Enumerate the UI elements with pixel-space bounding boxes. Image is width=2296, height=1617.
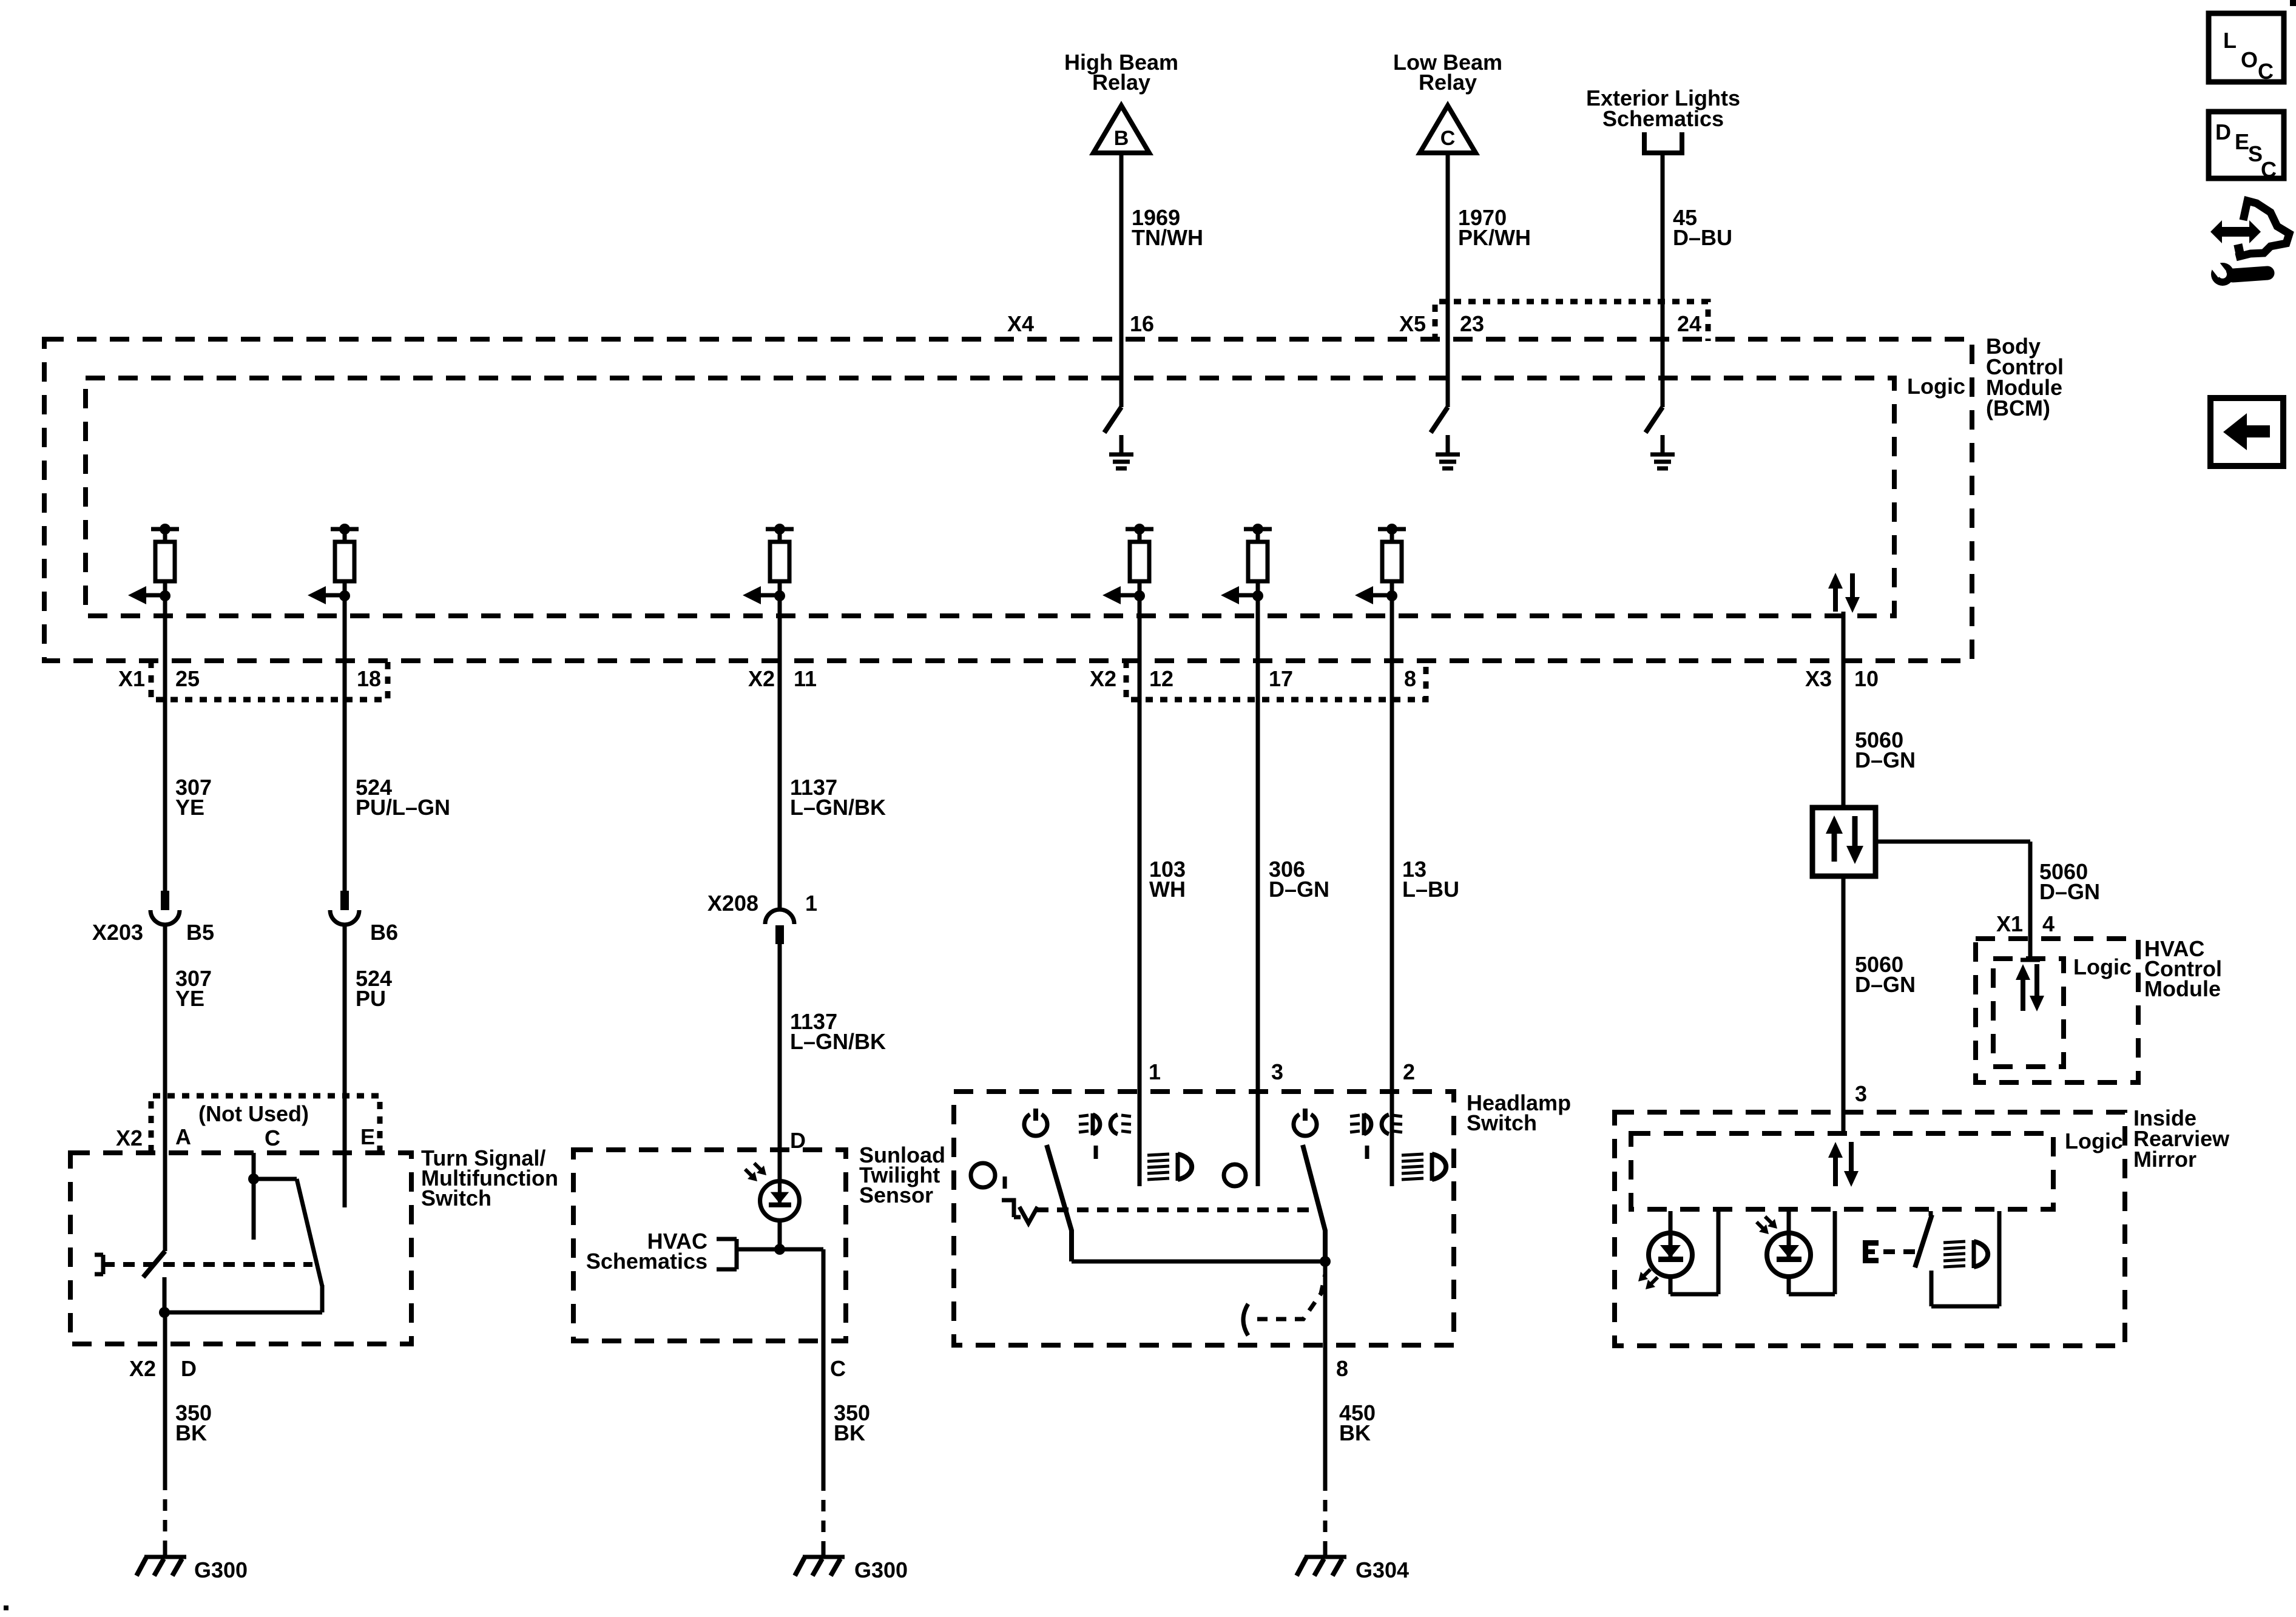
svg-text:Sensor: Sensor <box>859 1183 933 1207</box>
svg-text:X2: X2 <box>1090 666 1116 691</box>
svg-text:X2: X2 <box>748 666 775 691</box>
svg-text:D–GN: D–GN <box>2039 879 2100 904</box>
svg-text:PU/L–GN: PU/L–GN <box>356 795 450 820</box>
svg-text:L–BU: L–BU <box>1402 877 1459 902</box>
svg-text:X5: X5 <box>1399 311 1426 336</box>
svg-text:Relay: Relay <box>1419 70 1477 95</box>
svg-text:Switch: Switch <box>1467 1110 1537 1135</box>
svg-text:TN/WH: TN/WH <box>1132 225 1203 250</box>
svg-text:(BCM): (BCM) <box>1986 396 2050 420</box>
svg-text:D–GN: D–GN <box>1855 748 1916 772</box>
svg-text:BK: BK <box>1339 1420 1371 1445</box>
svg-text:BK: BK <box>834 1420 865 1445</box>
svg-text:C: C <box>2258 59 2274 84</box>
svg-text:10: 10 <box>1854 666 1879 691</box>
svg-text:Schematics: Schematics <box>1602 106 1724 131</box>
svg-text:8: 8 <box>1404 666 1416 691</box>
svg-text:X203: X203 <box>92 920 143 945</box>
svg-text:Module: Module <box>2144 976 2221 1001</box>
svg-text:L–GN/BK: L–GN/BK <box>790 795 886 820</box>
svg-text:X4: X4 <box>1007 311 1034 336</box>
svg-text:11: 11 <box>794 666 817 691</box>
svg-text:X2: X2 <box>116 1126 143 1150</box>
svg-text:E: E <box>360 1124 375 1149</box>
svg-text:L: L <box>2223 28 2237 53</box>
svg-text:C: C <box>830 1356 846 1381</box>
svg-text:Logic: Logic <box>2065 1129 2123 1153</box>
svg-text:G300: G300 <box>854 1558 908 1582</box>
svg-text:C: C <box>2261 157 2277 182</box>
svg-text:D–GN: D–GN <box>1855 972 1916 997</box>
svg-text:1: 1 <box>805 891 817 916</box>
svg-text:Mirror: Mirror <box>2133 1147 2196 1172</box>
svg-text:(Not Used): (Not Used) <box>198 1101 309 1126</box>
svg-text:E: E <box>2235 129 2249 154</box>
svg-text:G300: G300 <box>194 1558 248 1582</box>
svg-text:23: 23 <box>1460 311 1484 336</box>
svg-text:Relay: Relay <box>1092 70 1150 95</box>
svg-text:A: A <box>175 1124 191 1149</box>
svg-text:C: C <box>265 1126 280 1150</box>
svg-text:Switch: Switch <box>421 1186 491 1210</box>
svg-text:25: 25 <box>175 666 200 691</box>
svg-text:BK: BK <box>175 1420 207 1445</box>
svg-text:X208: X208 <box>707 891 758 916</box>
svg-text:24: 24 <box>1677 311 1701 336</box>
svg-text:X1: X1 <box>1996 911 2023 936</box>
svg-text:Logic: Logic <box>2073 954 2132 979</box>
svg-text:B5: B5 <box>186 920 214 945</box>
svg-text:WH: WH <box>1149 877 1186 902</box>
svg-text:O: O <box>2241 47 2258 72</box>
svg-text:Logic: Logic <box>1907 374 1965 399</box>
svg-text:D–BU: D–BU <box>1673 225 1732 250</box>
svg-text:X3: X3 <box>1805 666 1832 691</box>
svg-text:4: 4 <box>2042 911 2055 936</box>
svg-text:D: D <box>790 1128 806 1153</box>
svg-text:G304: G304 <box>1356 1558 1409 1582</box>
svg-text:D: D <box>2215 120 2231 144</box>
svg-text:3: 3 <box>1855 1081 1867 1106</box>
svg-text:B6: B6 <box>370 920 398 945</box>
svg-text:L–GN/BK: L–GN/BK <box>790 1029 886 1054</box>
svg-text:Schematics: Schematics <box>586 1249 707 1274</box>
svg-text:8: 8 <box>1336 1356 1348 1381</box>
svg-text:2: 2 <box>1403 1059 1415 1084</box>
svg-text:16: 16 <box>1130 311 1154 336</box>
svg-text:B: B <box>1114 127 1129 150</box>
svg-text:YE: YE <box>175 986 204 1011</box>
svg-text:PU: PU <box>356 986 386 1011</box>
svg-text:X2: X2 <box>129 1356 156 1381</box>
svg-text:1: 1 <box>1149 1059 1161 1084</box>
svg-text:17: 17 <box>1269 666 1293 691</box>
svg-text:18: 18 <box>357 666 381 691</box>
svg-text:X1: X1 <box>118 666 145 691</box>
svg-text:D: D <box>181 1356 197 1381</box>
svg-text:D–GN: D–GN <box>1269 877 1329 902</box>
svg-text:C: C <box>1440 127 1456 150</box>
svg-text:PK/WH: PK/WH <box>1458 225 1531 250</box>
svg-text:12: 12 <box>1149 666 1173 691</box>
svg-text:YE: YE <box>175 795 204 820</box>
svg-text:3: 3 <box>1271 1059 1283 1084</box>
